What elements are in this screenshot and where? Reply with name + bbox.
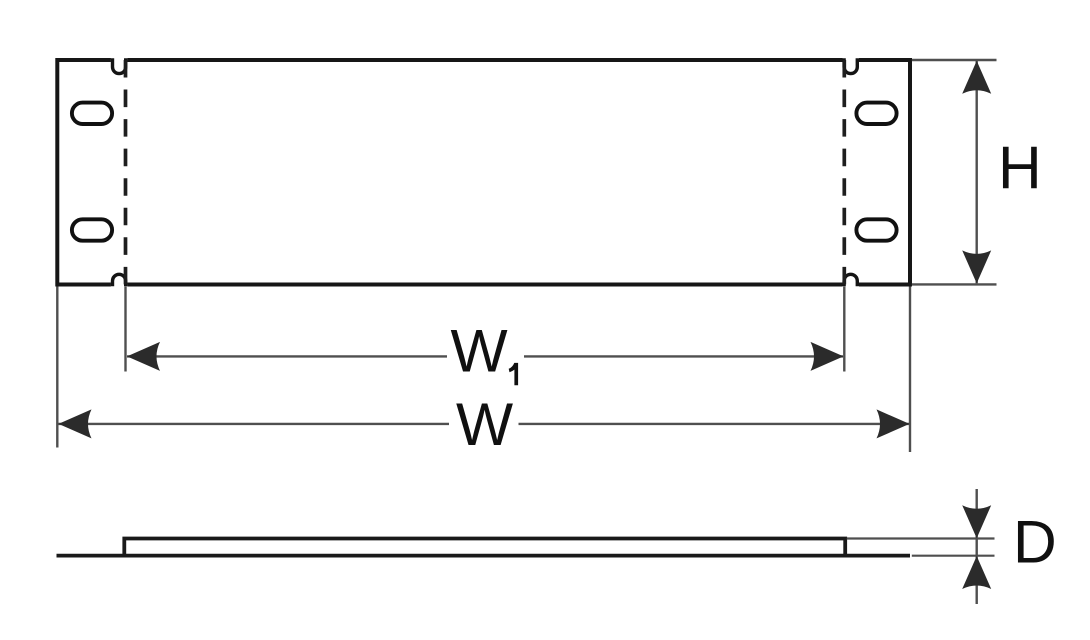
fold dashed line left xyxy=(124,60,128,284)
side view base line xyxy=(57,554,911,558)
svg-text:W: W xyxy=(451,316,508,384)
slot hole top-right xyxy=(856,103,896,124)
notch U top-left xyxy=(113,58,126,73)
W1 extension line right xyxy=(843,287,845,372)
slot hole bottom-left xyxy=(72,219,112,240)
svg-text:W: W xyxy=(456,390,513,458)
notch arch bottom-left xyxy=(113,274,126,286)
D dimension line xyxy=(976,489,978,604)
H extension line bottom xyxy=(912,283,997,285)
svg-text:H: H xyxy=(998,133,1042,201)
D arrow down (top) xyxy=(962,505,991,538)
slot hole bottom-right xyxy=(856,219,896,240)
notch U top-right xyxy=(844,58,857,73)
W dimension line left segment xyxy=(59,423,450,425)
D extension line bottom xyxy=(912,555,995,557)
W1 dimension line right segment xyxy=(524,355,843,357)
notch arch bottom-right xyxy=(844,274,857,286)
W1 arrow left xyxy=(127,342,160,371)
notch gap bottom-left (erase border) xyxy=(111,282,128,288)
W arrow left xyxy=(59,409,92,438)
notch gap top-left (erase border) xyxy=(111,57,128,63)
W dimension line right segment xyxy=(519,423,910,425)
D arrow up (bottom) xyxy=(962,556,991,589)
notch gap bottom-right (erase border) xyxy=(843,282,860,288)
H extension line top xyxy=(912,59,997,61)
W1 dimension line left segment xyxy=(127,355,447,357)
D extension line top xyxy=(847,537,995,539)
W extension line left xyxy=(56,287,58,448)
slot hole top-left xyxy=(72,103,112,124)
svg-text:D: D xyxy=(1013,507,1057,575)
H arrow up xyxy=(962,61,991,94)
H arrow down xyxy=(962,250,991,283)
notch gap top-right (erase border) xyxy=(843,57,860,63)
fold dashed line right xyxy=(842,60,846,284)
panel front view outline xyxy=(57,60,910,285)
W1 arrow right xyxy=(811,342,844,371)
H dimension line xyxy=(976,61,978,283)
W extension line right xyxy=(909,287,911,453)
W arrow right xyxy=(877,409,910,438)
W1 extension line left xyxy=(124,287,126,372)
side view raised profile xyxy=(124,539,845,556)
